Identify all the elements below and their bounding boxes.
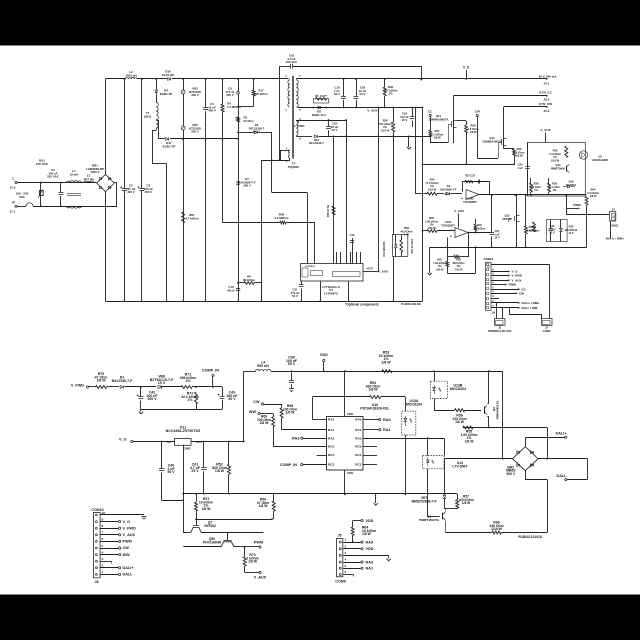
svg-text:C13: C13 xyxy=(350,233,355,237)
svg-text:PI-8840-032118: PI-8840-032118 xyxy=(401,302,421,306)
svg-text:R37 C25: R37 C25 xyxy=(465,175,476,178)
svg-text:50 V: 50 V xyxy=(288,362,296,366)
svg-text:1%: 1% xyxy=(388,92,393,96)
svg-text:VDD: VDD xyxy=(320,353,328,357)
svg-text:400 V: 400 V xyxy=(208,109,216,113)
svg-text:CC: CC xyxy=(428,110,433,114)
svg-text:DALI+ / DIM+: DALI+ / DIM+ xyxy=(606,237,624,241)
svg-text:1/16 W: 1/16 W xyxy=(381,128,390,132)
svg-text:V_PWD: V_PWD xyxy=(294,124,306,128)
svg-text:10 mH: 10 mH xyxy=(70,172,79,176)
svg-text:6: 6 xyxy=(102,537,104,541)
svg-text:DALI+: DALI+ xyxy=(123,566,135,570)
svg-text:230 VAC: 230 VAC xyxy=(286,60,297,64)
svg-text:1/16 W: 1/16 W xyxy=(427,226,436,230)
svg-text:CON6: CON6 xyxy=(335,579,345,583)
svg-text:L: L xyxy=(13,177,15,181)
svg-text:V_PWD: V_PWD xyxy=(512,274,523,278)
svg-text:VDD: VDD xyxy=(366,547,374,551)
svg-text:1/8 W: 1/8 W xyxy=(462,501,471,505)
svg-text:1/16 W: 1/16 W xyxy=(455,268,464,271)
svg-text:25 V: 25 V xyxy=(191,469,199,473)
svg-text:PHV1G6NR: PHV1G6NR xyxy=(203,540,222,544)
svg-text:RA4: RA4 xyxy=(328,428,334,432)
svg-text:RA2: RA2 xyxy=(355,436,361,440)
svg-text:BAS516: BAS516 xyxy=(566,183,577,187)
svg-text:25 V: 25 V xyxy=(549,232,555,235)
svg-text:CW: CW xyxy=(123,546,130,550)
svg-text:J6: J6 xyxy=(94,580,98,584)
svg-text:J1-1: J1-1 xyxy=(10,209,16,213)
svg-text:1/16 W: 1/16 W xyxy=(551,158,560,162)
svg-text:50 V: 50 V xyxy=(167,470,175,474)
svg-text:MOC8204: MOC8204 xyxy=(406,402,422,406)
svg-text:R51 51 Ohm: R51 51 Ohm xyxy=(411,238,414,253)
svg-text:CW: CW xyxy=(253,400,260,404)
svg-text:600 V: 600 V xyxy=(253,130,260,134)
svg-text:J5: J5 xyxy=(337,534,341,538)
svg-text:68 nF: 68 nF xyxy=(227,288,235,292)
svg-text:+: + xyxy=(450,235,452,239)
svg-text:20 Ohm: 20 Ohm xyxy=(244,119,255,123)
svg-text:D12 BAV23S: D12 BAV23S xyxy=(383,241,386,256)
svg-text:13 V: 13 V xyxy=(568,232,574,235)
svg-text:1/8 W: 1/8 W xyxy=(248,560,258,564)
svg-text:50 V: 50 V xyxy=(292,294,298,298)
svg-text:RA1: RA1 xyxy=(366,567,374,571)
svg-text:V_O: V_O xyxy=(463,66,470,70)
svg-text:V_AUX: V_AUX xyxy=(367,109,378,113)
svg-text:1/8 W: 1/8 W xyxy=(362,532,372,536)
svg-text:KTN_CW: KTN_CW xyxy=(539,102,552,106)
svg-text:V_O: V_O xyxy=(123,520,131,524)
svg-text:2: 2 xyxy=(102,564,104,568)
svg-text:BS2D-13-F: BS2D-13-F xyxy=(312,113,327,117)
svg-text:ES2D-TP: ES2D-TP xyxy=(160,92,173,96)
svg-text:1%: 1% xyxy=(187,398,193,402)
svg-text:560 nH: 560 nH xyxy=(257,364,269,368)
svg-text:RA2: RA2 xyxy=(328,418,334,422)
svg-text:PMMT4951TA: PMMT4951TA xyxy=(496,401,500,419)
svg-text:J5-3: J5-3 xyxy=(544,109,550,113)
svg-text:30 kOhm: 30 kOhm xyxy=(529,229,540,232)
svg-text:WW: WW xyxy=(123,553,131,557)
svg-text:RA1: RA1 xyxy=(355,428,361,432)
svg-text:RC2: RC2 xyxy=(355,463,361,467)
svg-text:PWM: PWM xyxy=(573,203,581,207)
svg-text:300 V: 300 V xyxy=(191,93,199,97)
svg-text:1/8 W: 1/8 W xyxy=(455,420,465,424)
svg-text:1: 1 xyxy=(102,570,104,574)
svg-text:DALI-: DALI- xyxy=(556,474,567,478)
svg-text:RA3: RA3 xyxy=(328,436,334,440)
svg-text:1%: 1% xyxy=(185,379,191,383)
svg-text:DFLS240-7: DFLS240-7 xyxy=(309,141,324,145)
svg-text:310 VAC: 310 VAC xyxy=(47,175,60,179)
svg-text:50 V: 50 V xyxy=(332,128,338,132)
svg-text:RA3: RA3 xyxy=(292,436,300,440)
svg-text:GND: GND xyxy=(184,447,192,451)
svg-text:DALI+ / DIM+: DALI+ / DIM+ xyxy=(522,301,540,305)
svg-text:630 V: 630 V xyxy=(226,93,233,97)
svg-text:KTN_CC: KTN_CC xyxy=(539,91,552,95)
svg-text:200 V: 200 V xyxy=(147,397,157,401)
svg-text:1/8 W: 1/8 W xyxy=(381,360,391,364)
svg-text:(001): (001) xyxy=(144,114,151,118)
svg-text:86 kOhm: 86 kOhm xyxy=(243,278,256,282)
svg-text:PMMT4591TA: PMMT4591TA xyxy=(419,518,440,522)
svg-text:J1-3: J1-3 xyxy=(10,186,16,190)
svg-text:VSS: VSS xyxy=(347,471,353,475)
svg-text:TERMINAL BLOCK: TERMINAL BLOCK xyxy=(488,329,512,333)
svg-text:DALI+: DALI+ xyxy=(556,431,568,435)
svg-text:CW: CW xyxy=(519,292,524,296)
svg-text:TSV622IDT: TSV622IDT xyxy=(463,200,477,204)
svg-text:RA0: RA0 xyxy=(366,560,374,564)
svg-text:1/8 W: 1/8 W xyxy=(515,154,523,158)
svg-text:1/8 W: 1/8 W xyxy=(260,421,270,425)
svg-text:1/8 W: 1/8 W xyxy=(433,136,441,140)
svg-text:36 V, 900 mA: 36 V, 900 mA xyxy=(539,74,558,78)
svg-text:5.6 kOhm: 5.6 kOhm xyxy=(474,227,486,230)
svg-text:600 V: 600 V xyxy=(506,472,516,476)
svg-text:1%: 1% xyxy=(534,188,538,192)
svg-text:RA1: RA1 xyxy=(383,428,391,432)
svg-text:16.7 uH: 16.7 uH xyxy=(83,177,93,181)
svg-text:*Optional components: *Optional components xyxy=(345,303,379,307)
svg-text:PWM: PWM xyxy=(123,540,132,544)
svg-text:LYT6067C: LYT6067C xyxy=(324,291,339,295)
svg-text:RC0: RC0 xyxy=(355,445,361,449)
svg-text:RC5: RC5 xyxy=(328,445,334,449)
svg-text:1 W: 1 W xyxy=(404,233,409,237)
svg-text:RC1: RC1 xyxy=(355,453,361,457)
svg-text:1/8 W: 1/8 W xyxy=(96,379,106,383)
svg-text:RC4: RC4 xyxy=(328,453,334,457)
svg-text:1 uF: 1 uF xyxy=(517,166,523,170)
svg-text:PQ2620: PQ2620 xyxy=(288,165,299,169)
svg-text:4.7 kOhm: 4.7 kOhm xyxy=(185,216,199,220)
svg-text:PIC16F18326-I/SL: PIC16F18326-I/SL xyxy=(360,406,390,410)
svg-text:V_O: V_O xyxy=(119,438,127,442)
svg-text:V_AUX: V_AUX xyxy=(123,533,136,537)
svg-text:V_FWD: V_FWD xyxy=(123,526,136,530)
svg-text:300 V: 300 V xyxy=(191,130,199,134)
svg-text:ES2G-TP: ES2G-TP xyxy=(163,144,176,148)
svg-text:1/8 W: 1/8 W xyxy=(590,194,597,198)
svg-text:5: 5 xyxy=(102,544,104,548)
svg-text:BAV2999-7-F: BAV2999-7-F xyxy=(440,187,456,191)
svg-text:V_FWD: V_FWD xyxy=(71,383,84,387)
svg-text:16 V: 16 V xyxy=(402,118,408,122)
svg-text:1503 uH: 1503 uH xyxy=(125,73,136,77)
svg-text:V_AUX: V_AUX xyxy=(254,576,267,580)
svg-text:50 V: 50 V xyxy=(334,92,340,96)
svg-text:820 kOhm: 820 kOhm xyxy=(254,92,268,96)
svg-text:DALI- / DIM-: DALI- / DIM- xyxy=(522,306,539,310)
svg-text:1/8 W: 1/8 W xyxy=(259,504,269,508)
svg-text:VDD: VDD xyxy=(347,412,354,416)
svg-text:2N7002: 2N7002 xyxy=(204,524,216,528)
svg-text:PI-8843-101018: PI-8843-101018 xyxy=(518,535,542,539)
svg-text:J5-1: J5-1 xyxy=(544,81,550,85)
svg-text:2.2 MOhm: 2.2 MOhm xyxy=(274,216,288,220)
svg-text:RA0: RA0 xyxy=(383,418,391,422)
svg-text:PWM: PWM xyxy=(509,283,517,287)
svg-text:1/16 W: 1/16 W xyxy=(436,268,445,271)
svg-text:J6: J6 xyxy=(492,311,496,315)
svg-text:1%: 1% xyxy=(553,188,557,192)
svg-text:4: 4 xyxy=(102,550,104,554)
svg-text:50 V: 50 V xyxy=(228,397,236,401)
svg-text:DALI-: DALI- xyxy=(123,573,134,577)
svg-text:CON10: CON10 xyxy=(483,257,493,261)
svg-text:450 V: 450 V xyxy=(127,190,135,194)
svg-text:270 VAC: 270 VAC xyxy=(36,162,49,166)
svg-text:1000 V: 1000 V xyxy=(90,170,99,174)
svg-text:RA3: RA3 xyxy=(366,540,374,544)
svg-text:VOUT: VOUT xyxy=(367,268,374,270)
svg-text:J5-2: J5-2 xyxy=(544,98,550,102)
svg-text:COM2: COM2 xyxy=(610,223,619,227)
svg-text:1/10 W: 1/10 W xyxy=(491,527,503,531)
svg-text:9: 9 xyxy=(102,517,104,521)
svg-text:8: 8 xyxy=(102,524,104,528)
svg-text:1/8 W: 1/8 W xyxy=(215,469,225,473)
svg-text:RF CAP*: RF CAP* xyxy=(315,94,328,98)
svg-text:VDD: VDD xyxy=(366,519,374,523)
svg-text:200 V: 200 V xyxy=(243,184,251,188)
svg-text:50 V: 50 V xyxy=(360,92,366,96)
svg-text:PWM: PWM xyxy=(254,541,263,545)
svg-text:1/8 W: 1/8 W xyxy=(465,439,475,443)
svg-text:RA0: RA0 xyxy=(355,418,361,422)
svg-text:V_AUX: V_AUX xyxy=(454,209,464,213)
svg-text:J4: J4 xyxy=(611,208,615,212)
svg-text:3: 3 xyxy=(102,557,104,561)
svg-text:LMV431AIMF: LMV431AIMF xyxy=(592,158,609,162)
svg-text:COMP_IN: COMP_IN xyxy=(202,369,219,373)
svg-text:WW: WW xyxy=(249,410,257,414)
svg-text:R50 47.5k: R50 47.5k xyxy=(326,204,330,217)
svg-text:V_AUX: V_AUX xyxy=(378,269,389,273)
svg-text:RC3: RC3 xyxy=(328,463,334,467)
svg-text:SL03-GP: SL03-GP xyxy=(162,73,174,77)
svg-text:ZXMN6A09GTA: ZXMN6A09GTA xyxy=(429,117,449,121)
svg-text:MMBT3904: MMBT3904 xyxy=(551,166,565,170)
svg-text:15 V: 15 V xyxy=(158,381,166,385)
svg-text:1/16 W: 1/16 W xyxy=(428,187,437,191)
svg-text:7: 7 xyxy=(102,531,104,535)
svg-text:1/8 W: 1/8 W xyxy=(469,130,477,134)
svg-text:MMSZ5230B-7-F: MMSZ5230B-7-F xyxy=(411,499,436,503)
svg-text:CW: CW xyxy=(475,110,480,114)
svg-text:COMP_IN: COMP_IN xyxy=(280,463,297,467)
svg-text:16 V: 16 V xyxy=(494,236,500,240)
svg-text:V_AUX: V_AUX xyxy=(540,128,551,132)
svg-text:TSV622IDT: TSV622IDT xyxy=(441,223,455,227)
svg-text:VAC: VAC xyxy=(19,195,26,199)
svg-text:OUT: OUT xyxy=(196,440,203,444)
svg-text:1/8 W: 1/8 W xyxy=(286,411,296,415)
svg-text:NCV4264-2ST50T3G: NCV4264-2ST50T3G xyxy=(166,429,201,433)
svg-text:LTV-356T: LTV-356T xyxy=(452,464,468,468)
svg-text:COM2: COM2 xyxy=(543,329,551,333)
svg-text:450 V: 450 V xyxy=(144,190,152,194)
svg-text:MOC8204: MOC8204 xyxy=(450,387,466,391)
svg-text:1/8 W: 1/8 W xyxy=(202,507,212,511)
svg-text:BAV21W-7-F: BAV21W-7-F xyxy=(112,379,134,383)
svg-text:CONTROL: CONTROL xyxy=(305,266,316,268)
svg-text:1/8 W: 1/8 W xyxy=(368,388,378,392)
